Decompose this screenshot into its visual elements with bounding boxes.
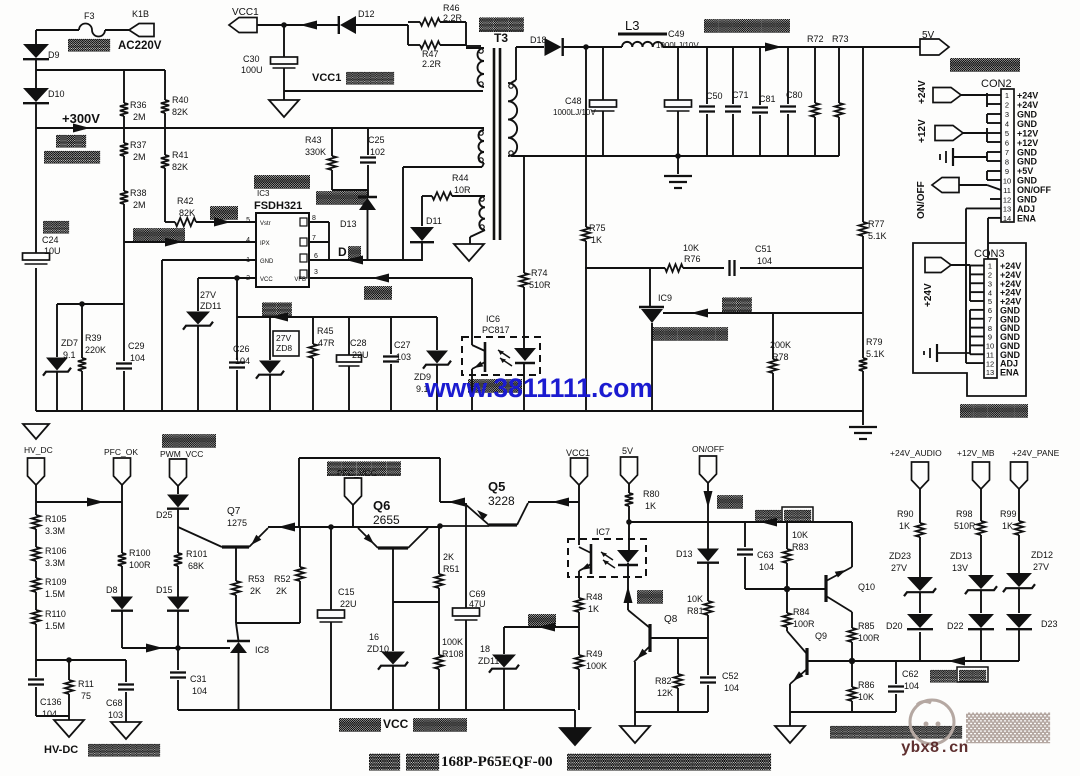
resistor R106 xyxy=(32,547,40,561)
node C15 top xyxy=(328,524,334,530)
svg-text:104: 104 xyxy=(757,256,772,266)
svg-text:6: 6 xyxy=(1005,139,1009,148)
svg-text:47R: 47R xyxy=(318,338,335,348)
svg-text:5: 5 xyxy=(1005,129,1009,138)
svg-text:VCC: VCC xyxy=(260,277,273,283)
arrow 取样 xyxy=(691,309,708,318)
wire VCC1 to R48 xyxy=(578,571,580,598)
svg-text:R100: R100 xyxy=(129,548,151,558)
svg-text:82K: 82K xyxy=(172,107,188,117)
wire HV_DC vertical xyxy=(35,485,37,515)
svg-text:14: 14 xyxy=(1003,214,1011,223)
svg-text:▓▓▓▓▓: ▓▓▓▓▓ xyxy=(960,403,1028,418)
IC6 phototransistor xyxy=(484,342,487,372)
svg-text:www.3811111.com: www.3811111.com xyxy=(424,373,653,403)
svg-text:▓▓: ▓▓ xyxy=(755,509,783,523)
svg-text:3.3M: 3.3M xyxy=(45,526,65,536)
svg-text:C51: C51 xyxy=(755,244,772,254)
IC6 LED xyxy=(514,348,536,361)
wire gnd pins 7 8 xyxy=(986,152,988,161)
svg-text:47U: 47U xyxy=(469,599,486,609)
connector +12V tag xyxy=(935,126,963,141)
svg-text:9: 9 xyxy=(988,333,992,342)
svg-text:R105: R105 xyxy=(45,514,67,524)
ground C30 xyxy=(269,100,299,117)
wire y70 branch xyxy=(36,69,165,71)
resistor R45 xyxy=(312,317,314,344)
wire Q5 emitter node xyxy=(440,501,464,503)
svg-text:ZD23: ZD23 xyxy=(889,551,911,561)
svg-text:AC220V: AC220V xyxy=(118,40,162,52)
capacitor C63 xyxy=(744,522,746,547)
svg-text:C49: C49 xyxy=(668,29,685,39)
wire pins 9 10 jumper xyxy=(986,171,988,180)
node Q5 base xyxy=(437,523,443,529)
svg-text:103: 103 xyxy=(396,352,411,362)
svg-text:5.1K: 5.1K xyxy=(868,231,887,241)
diode D22 xyxy=(968,614,994,628)
svg-text:▓▓: ▓▓ xyxy=(56,134,88,148)
svg-text:R52: R52 xyxy=(274,574,291,584)
capacitor C15 xyxy=(330,527,332,610)
svg-text:Q10: Q10 xyxy=(858,582,875,592)
svg-text:Q5: Q5 xyxy=(488,479,505,494)
winding primary (mid-left) xyxy=(479,130,485,163)
svg-text:3: 3 xyxy=(1005,110,1009,119)
zener ZD11 27V xyxy=(197,278,199,311)
arrow PFC_OK sample xyxy=(87,498,104,507)
ground Q9 xyxy=(789,712,791,726)
arrow 电流检测 xyxy=(165,238,182,247)
IC3 right pads xyxy=(300,218,307,226)
svg-text:R36: R36 xyxy=(130,100,147,110)
diode D15 xyxy=(167,597,189,610)
svg-text:▓▓▓▓: ▓▓▓▓ xyxy=(413,717,467,732)
svg-text:C15: C15 xyxy=(338,587,355,597)
resistor R101 xyxy=(174,553,182,566)
svg-text:2M: 2M xyxy=(133,200,146,210)
shunt-reg IC9 xyxy=(649,268,651,307)
connector +24V_AUDIO tag xyxy=(912,462,929,489)
svg-text:2: 2 xyxy=(1005,101,1009,110)
svg-text:R81: R81 xyxy=(687,606,704,616)
svg-text:C63: C63 xyxy=(757,550,774,560)
svg-text:▓▓▓: ▓▓▓ xyxy=(68,38,112,52)
svg-text:D12: D12 xyxy=(358,9,375,19)
ground secondary xyxy=(677,156,679,174)
wire audio col xyxy=(919,489,921,523)
svg-text:6: 6 xyxy=(314,253,318,260)
transistor Q6 xyxy=(378,546,408,549)
svg-text:+24V: +24V xyxy=(923,283,934,307)
resistor R84 xyxy=(786,589,788,613)
svg-text:C24: C24 xyxy=(42,235,59,245)
svg-text:▓▓▓▓: ▓▓▓▓ xyxy=(133,227,185,242)
svg-text:10U: 10U xyxy=(44,246,61,256)
svg-text:C80: C80 xyxy=(786,90,803,100)
svg-text:1.5M: 1.5M xyxy=(45,621,65,631)
svg-text:▓▓▓: ▓▓▓ xyxy=(966,711,1050,744)
wire IC3 pin7 xyxy=(309,241,329,243)
wire secondary gnd bus y156 xyxy=(511,155,839,157)
zener ZD10 xyxy=(392,602,394,651)
wire Q10 base xyxy=(787,588,825,590)
ground main bottom xyxy=(574,710,576,728)
wire Q9 emitter bus xyxy=(789,684,791,712)
wire R46R47 right vert xyxy=(465,22,467,46)
arrow Q5 emitter wire xyxy=(448,498,465,507)
resistor R39 xyxy=(81,304,83,358)
resistor R36 xyxy=(123,70,125,103)
svg-text:IC8: IC8 xyxy=(255,645,269,655)
connector AC220V tag xyxy=(129,24,154,37)
svg-text:R76: R76 xyxy=(684,254,701,264)
resistor R44 xyxy=(422,195,432,197)
wire top rail xyxy=(299,457,440,459)
svg-text:5.1K: 5.1K xyxy=(866,349,885,359)
svg-text:▓▓: ▓▓ xyxy=(722,296,753,312)
svg-text:C69: C69 xyxy=(469,589,486,599)
svg-text:C50: C50 xyxy=(706,91,723,101)
svg-text:C71: C71 xyxy=(732,90,749,100)
svg-text:330K: 330K xyxy=(305,147,326,157)
svg-text:68K: 68K xyxy=(188,561,204,571)
svg-text:D23: D23 xyxy=(1041,619,1058,629)
svg-text:100R: 100R xyxy=(793,619,815,629)
svg-text:R41: R41 xyxy=(172,150,189,160)
svg-text:D22: D22 xyxy=(947,621,964,631)
node R11 top xyxy=(66,657,72,663)
svg-text:C52: C52 xyxy=(722,671,739,681)
svg-text:27V: 27V xyxy=(1033,562,1049,572)
svg-text:IC9: IC9 xyxy=(658,293,672,303)
connector VCC1 tag xyxy=(229,18,257,33)
resistor R108 xyxy=(438,602,440,655)
capacitor C25 xyxy=(367,128,369,155)
svg-text:510R: 510R xyxy=(954,521,976,531)
svg-text:ENA: ENA xyxy=(1017,213,1037,223)
node D15 bottom xyxy=(175,645,181,651)
svg-text:C68: C68 xyxy=(106,698,123,708)
svg-text:+12V_MB: +12V_MB xyxy=(957,448,995,458)
node VCC/C26 xyxy=(234,275,240,281)
svg-text:1K: 1K xyxy=(588,604,599,614)
svg-text:VCC1: VCC1 xyxy=(232,7,259,18)
node Q9 base xyxy=(849,658,855,664)
arrow Q7 emitter xyxy=(278,523,295,532)
svg-text:R42: R42 xyxy=(177,196,194,206)
arrow 开关 up xyxy=(624,586,633,603)
svg-text:K1B: K1B xyxy=(132,9,149,19)
resistor R98 xyxy=(977,521,985,535)
ground R11 xyxy=(54,720,84,737)
svg-text:ZD10: ZD10 xyxy=(367,644,389,654)
svg-text:▓▓: ▓▓ xyxy=(959,669,988,683)
ground CON2 xyxy=(952,148,954,166)
svg-text:10: 10 xyxy=(1003,176,1011,185)
svg-text:R37: R37 xyxy=(130,140,147,150)
svg-text:4: 4 xyxy=(988,288,992,297)
svg-text:IC6: IC6 xyxy=(486,314,500,324)
ground under R79 xyxy=(862,411,864,425)
diode D23 xyxy=(1006,614,1032,628)
wire 保护 rail y522 xyxy=(629,521,852,523)
svg-text:13: 13 xyxy=(986,368,994,377)
wire 稳压 net y278 xyxy=(309,277,472,279)
svg-text:L3: L3 xyxy=(625,18,639,33)
capacitor C50 xyxy=(706,47,708,104)
svg-text:▓▓▓▓▓▓▓▓▓▓▓: ▓▓▓▓▓▓▓▓▓▓▓ xyxy=(830,725,963,739)
svg-text:22U: 22U xyxy=(340,599,357,609)
arrow 保护 rail xyxy=(760,518,777,527)
capacitor C69 xyxy=(465,503,467,608)
svg-text:12: 12 xyxy=(986,359,994,368)
inductor L3 xyxy=(622,42,663,47)
diode D13 xyxy=(367,190,369,196)
wire primary bottom to D-node xyxy=(403,166,482,168)
svg-text:VCC: VCC xyxy=(383,717,409,731)
svg-text:+300V: +300V xyxy=(62,111,100,126)
svg-text:82K: 82K xyxy=(179,208,195,218)
wire CON3 pin13 link xyxy=(987,252,989,259)
arrow D-node xyxy=(346,256,363,265)
svg-text:102: 102 xyxy=(370,147,385,157)
svg-text:R86: R86 xyxy=(858,680,875,690)
diode D8 xyxy=(111,597,133,610)
wire CON3 pins1-5 jumper xyxy=(951,264,970,266)
diode D11 xyxy=(421,196,423,226)
svg-text:▓▓: ▓▓ xyxy=(930,669,958,683)
node C49 gnd xyxy=(675,153,681,159)
capacitor C49 xyxy=(677,47,679,100)
svg-text:27V: 27V xyxy=(276,333,291,343)
svg-text:100K: 100K xyxy=(586,661,607,671)
wire pane col xyxy=(1018,489,1020,521)
svg-text:C30: C30 xyxy=(243,54,260,64)
diode D13b xyxy=(697,549,719,562)
IC U1 FSDH321 body xyxy=(256,213,309,287)
svg-text:R74: R74 xyxy=(531,268,548,278)
svg-text:1: 1 xyxy=(988,262,992,271)
capacitor C26 xyxy=(236,317,238,360)
wire +12V to pins xyxy=(963,132,987,134)
svg-text:▓▓: ▓▓ xyxy=(364,285,392,300)
wire ZD10/R51 link xyxy=(393,601,439,603)
svg-text:103: 103 xyxy=(108,710,123,720)
resistor R41 xyxy=(164,128,166,155)
connector 5V tag xyxy=(920,39,949,55)
svg-text:1: 1 xyxy=(1005,91,1009,100)
wire D8 to IC8 node xyxy=(122,647,178,649)
resistor R11 xyxy=(68,660,70,680)
resistor R109 xyxy=(32,578,40,592)
svg-text:1000LJ/10V: 1000LJ/10V xyxy=(553,108,596,117)
svg-text:10K: 10K xyxy=(683,243,699,253)
svg-text:D9: D9 xyxy=(48,50,60,60)
svg-text:R109: R109 xyxy=(45,577,67,587)
resistor R37 xyxy=(123,128,125,143)
wire PFC_VCC drop xyxy=(352,505,354,527)
resistor R85 xyxy=(848,628,856,642)
svg-text:5V: 5V xyxy=(622,446,633,456)
ground Q8 xyxy=(634,712,636,726)
diode D9 xyxy=(23,44,49,58)
IC6 arrows xyxy=(498,350,510,358)
capacitor C48 xyxy=(602,47,604,100)
resistor R90 xyxy=(916,523,924,537)
arrow 启动 xyxy=(214,218,231,227)
svg-text:5: 5 xyxy=(988,297,992,306)
diode D10 xyxy=(23,88,49,102)
svg-text:C26: C26 xyxy=(233,344,250,354)
svg-text:▓▓▓▓▓▓: ▓▓▓▓▓▓ xyxy=(652,326,728,341)
svg-text:R83: R83 xyxy=(792,542,809,552)
svg-text:D: D xyxy=(338,245,347,259)
wire +24V to pins xyxy=(961,94,987,96)
svg-text:R48: R48 xyxy=(586,592,603,602)
svg-text:PFC_OK: PFC_OK xyxy=(104,447,138,457)
svg-text:2.2R: 2.2R xyxy=(422,59,442,69)
svg-text:R46: R46 xyxy=(443,3,460,13)
resistor R74 xyxy=(523,156,525,273)
resistor R38 xyxy=(120,191,128,204)
wire AC input top xyxy=(36,29,79,31)
svg-text:8: 8 xyxy=(1005,157,1009,166)
svg-text:R75: R75 xyxy=(589,223,606,233)
HV_DC tap arrow xyxy=(23,424,49,439)
svg-text:▓▓: ▓▓ xyxy=(637,589,663,604)
wire ON/OFF to pin 11 xyxy=(959,184,987,186)
wire PFC_OK vertical xyxy=(121,485,123,553)
svg-text:R40: R40 xyxy=(172,95,189,105)
svg-text:▓: ▓ xyxy=(348,245,361,260)
resistor R86 xyxy=(851,661,853,687)
arrow Q5 collector wire xyxy=(552,498,569,507)
wire D13b to R81 xyxy=(707,562,709,601)
svg-text:R73: R73 xyxy=(832,34,849,44)
wire left main vertical xyxy=(35,30,37,44)
IC7 arrows xyxy=(601,552,613,560)
svg-text:▓▓▓▓: ▓▓▓▓ xyxy=(254,174,310,189)
wire 稳压 to IC6 xyxy=(471,278,473,345)
svg-text:Q7: Q7 xyxy=(227,506,241,517)
svg-text:IPX: IPX xyxy=(260,241,270,247)
svg-text:1K: 1K xyxy=(645,501,656,511)
svg-text:▓▓▓▓▓▓: ▓▓▓▓▓▓ xyxy=(704,18,790,33)
resistor R46 xyxy=(408,21,420,23)
wire 取样 net y313 xyxy=(663,312,863,314)
resistor R76 xyxy=(665,264,683,272)
wire PFC_OK sample link xyxy=(36,501,122,503)
svg-text:9: 9 xyxy=(1005,167,1009,176)
winding aux (top-left) xyxy=(478,48,485,87)
svg-text:10K: 10K xyxy=(792,530,808,540)
wire snubber bottom xyxy=(332,189,368,191)
svg-text:T3: T3 xyxy=(494,31,508,45)
wire D-node net xyxy=(309,259,329,261)
optocoupler IC7 box xyxy=(568,539,646,577)
svg-text:D13: D13 xyxy=(340,219,357,229)
svg-text:D20: D20 xyxy=(886,621,903,631)
zener ZD11b 18V xyxy=(503,627,505,654)
wire R46R47 left vert xyxy=(407,25,409,45)
zener ZD8 xyxy=(269,317,271,360)
svg-text:C25: C25 xyxy=(368,135,385,145)
diode D12 xyxy=(340,16,356,34)
svg-text:13V: 13V xyxy=(952,563,968,573)
svg-text:▓▓: ▓▓ xyxy=(784,509,813,523)
svg-text:HV_DC: HV_DC xyxy=(24,445,53,455)
svg-text:▓▓: ▓▓ xyxy=(406,753,439,771)
zener ZD23 xyxy=(907,577,933,591)
wire ZD7/R39 top link xyxy=(57,303,124,305)
svg-text:75: 75 xyxy=(81,691,91,701)
capacitor C29 xyxy=(123,242,125,361)
resistor R42 xyxy=(175,218,196,226)
svg-text:2: 2 xyxy=(988,271,992,280)
svg-text:100U: 100U xyxy=(241,65,263,75)
svg-text:ZD8: ZD8 xyxy=(276,343,292,353)
wire protect rail y661 xyxy=(852,660,1019,662)
connector +24V tag xyxy=(933,88,961,103)
svg-text:R77: R77 xyxy=(868,219,885,229)
svg-text:C81: C81 xyxy=(759,94,776,104)
svg-text:3: 3 xyxy=(314,269,318,276)
svg-text:ZD13: ZD13 xyxy=(950,551,972,561)
svg-text:100K: 100K xyxy=(442,637,463,647)
svg-text:R90: R90 xyxy=(897,509,914,519)
capacitor C28 xyxy=(348,317,350,355)
diode D25 xyxy=(177,486,179,494)
svg-text:104: 104 xyxy=(130,353,145,363)
wire Q7 feed xyxy=(177,527,179,553)
zener ZD13 xyxy=(968,575,994,589)
svg-text:82K: 82K xyxy=(172,162,188,172)
svg-text:R101: R101 xyxy=(186,549,208,559)
svg-text:D13: D13 xyxy=(676,549,693,559)
svg-text:C28: C28 xyxy=(350,338,367,348)
connector HV_DC tag xyxy=(28,458,45,485)
IC7 LED cathode wire xyxy=(627,563,629,610)
wire Q8 emitter down xyxy=(634,662,636,712)
connector CON3 +24V tag xyxy=(925,258,951,273)
svg-text:PWM_VCC: PWM_VCC xyxy=(160,449,203,459)
svg-text:R80: R80 xyxy=(643,489,660,499)
svg-text:▓▓: ▓▓ xyxy=(369,753,400,771)
svg-text:104: 104 xyxy=(904,681,919,691)
svg-text:3228: 3228 xyxy=(488,494,515,508)
svg-text:2M: 2M xyxy=(133,152,146,162)
svg-text:ZD11: ZD11 xyxy=(478,656,499,666)
diode D20 xyxy=(907,614,933,628)
svg-text:2K: 2K xyxy=(443,552,454,562)
svg-text:GND: GND xyxy=(260,259,274,265)
svg-text:104: 104 xyxy=(759,562,774,572)
resistor R79 xyxy=(862,268,864,313)
svg-text:1K: 1K xyxy=(1002,521,1013,531)
svg-text:1275: 1275 xyxy=(227,518,247,528)
connector 5V bottom tag xyxy=(621,457,638,484)
svg-text:D10: D10 xyxy=(48,89,65,99)
connector ON/OFF bottom tag xyxy=(700,456,717,483)
capacitor C80 xyxy=(787,47,789,104)
connector PFC_OK tag xyxy=(114,458,131,485)
arrow VCC1 xyxy=(300,21,317,30)
wire Q10 collector up xyxy=(851,522,853,567)
wire 启动 net xyxy=(165,221,175,223)
wire IC6 emitter to bus xyxy=(471,369,473,411)
svg-text:10R: 10R xyxy=(454,185,471,195)
